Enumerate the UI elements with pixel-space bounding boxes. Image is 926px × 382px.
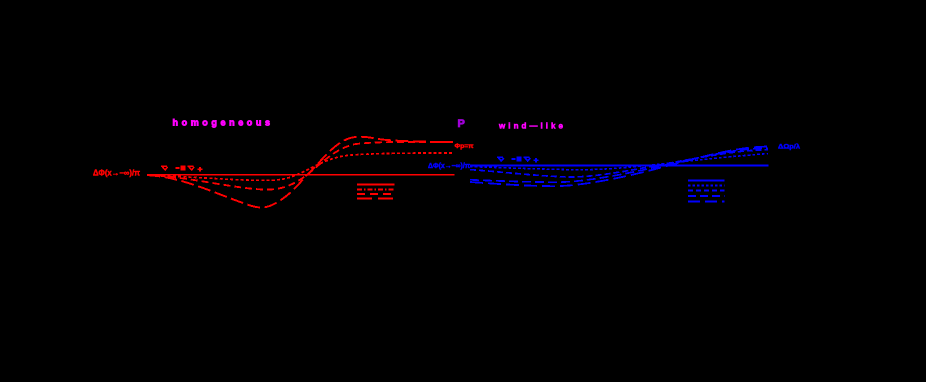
- annotation: small blue v-bar glyphs: [497, 157, 516, 161]
- red legend block: [357, 185, 395, 199]
- blue curve long dash (deepest): [470, 147, 768, 187]
- red curve long-dash (deep): [147, 137, 453, 208]
- wire: red axis line (solid curve v=0): [147, 174, 455, 176]
- blue legend block: [688, 181, 725, 202]
- svg-text:wind—like: wind—like: [498, 122, 564, 131]
- wire: blue axis line (solid): [470, 164, 769, 166]
- svg-text:ΔΦ(x→−∞)/π: ΔΦ(x→−∞)/π: [93, 169, 140, 178]
- blue curve medium-long dash: [470, 148, 768, 182]
- blue curve dashed: [470, 150, 768, 177]
- annotation: small red v-bar glyphs: [161, 166, 180, 170]
- svg-text:P: P: [458, 118, 465, 130]
- svg-text:Φp=π: Φp=π: [455, 144, 474, 150]
- svg-text:ΔΦ(x→−∞)/π: ΔΦ(x→−∞)/π: [428, 161, 470, 170]
- red curve dash-dot (shallow): [147, 153, 453, 181]
- blue curve fine dash-dot (shallowest): [470, 154, 768, 170]
- red curve dashed (medium): [147, 142, 453, 190]
- svg-text:ΔΩp/λ: ΔΩp/λ: [778, 144, 801, 150]
